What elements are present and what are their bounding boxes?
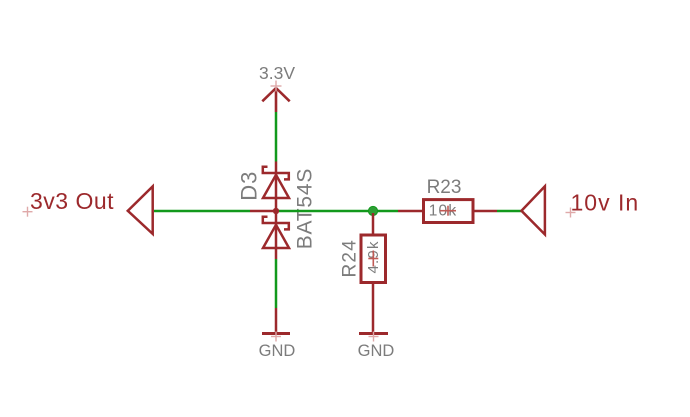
diode D3 bottom half: anode triangle	[263, 225, 289, 248]
power flag 3.3V	[262, 88, 289, 112]
junction node at R24 tap	[368, 206, 377, 215]
wire D3 center pin (left stub)	[250, 210, 276, 213]
diode D3 top half: anode triangle	[263, 175, 289, 198]
svg-text:3.3V: 3.3V	[259, 63, 295, 83]
diode D3 bottom half: schottky cathode bar	[263, 217, 289, 230]
origin cross of 10v In pin	[566, 208, 576, 218]
svg-text:D3: D3	[237, 171, 262, 201]
origin cross of R24	[368, 251, 378, 267]
svg-text:BAT54S: BAT54S	[294, 168, 317, 249]
wire D3 anode to GND	[275, 259, 278, 308]
ground symbol GND (right)	[359, 332, 388, 335]
wire D3 center to R23/R24 junction	[279, 210, 398, 213]
svg-text:10v In: 10v In	[571, 189, 640, 215]
wire 3v3 Out pin to D3	[154, 210, 250, 213]
pin 3v3 Out triangle	[128, 186, 153, 234]
svg-text:R24: R24	[340, 239, 361, 277]
wire R23 right pin stub	[475, 210, 498, 213]
wire R24 bottom pin to GND	[372, 283, 375, 334]
origin cross of right GND	[369, 332, 379, 342]
origin cross of 3v3 Out pin	[23, 207, 33, 217]
wire R23 to 10v In pin	[497, 210, 521, 213]
origin cross of 3.3V symbol	[271, 81, 282, 92]
svg-text:3v3 Out: 3v3 Out	[30, 188, 114, 214]
origin cross of left GND	[271, 332, 281, 342]
diode D3 top half: schottky cathode bar	[263, 167, 289, 180]
wire 3.3V to D3 cathode	[275, 112, 278, 162]
resistor R24 body	[361, 235, 386, 283]
resistor R23 body	[424, 200, 474, 223]
junction dot at D3 center tap	[273, 208, 279, 214]
diode D3 (BAT54S dual schottky) vertical pin line	[275, 162, 278, 260]
svg-text:R23: R23	[427, 177, 462, 198]
svg-text:GND: GND	[358, 342, 395, 360]
ground symbol GND (left)	[262, 308, 290, 334]
pin 10v In triangle	[522, 186, 545, 234]
wire R24 top pin stub	[372, 213, 375, 234]
wire R23 left pin stub	[398, 210, 422, 213]
origin cross of R23	[440, 206, 456, 216]
svg-text:GND: GND	[259, 342, 296, 360]
